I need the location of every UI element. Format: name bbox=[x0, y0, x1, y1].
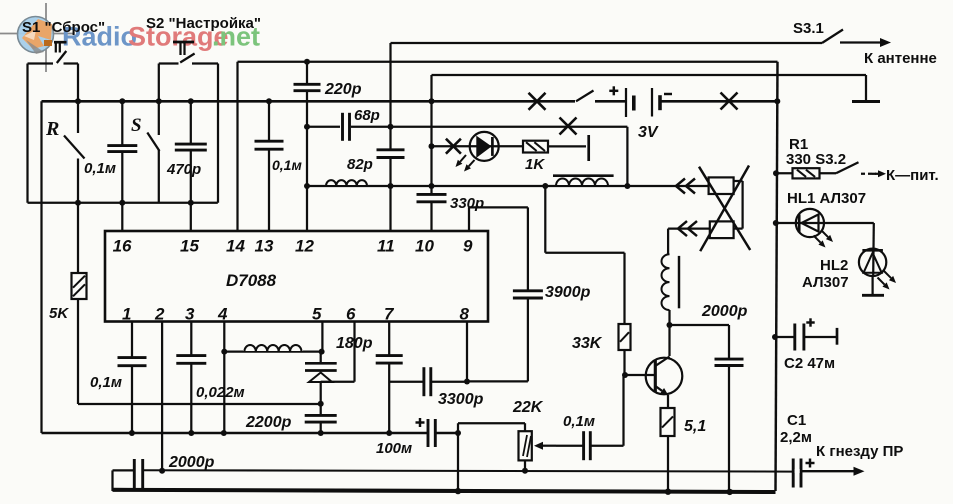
svg-text:C2 47м: C2 47м bbox=[784, 355, 835, 372]
svg-text:33K: 33K bbox=[572, 335, 603, 352]
svg-text:10: 10 bbox=[415, 237, 434, 256]
svg-text:К гнезду ПР: К гнезду ПР bbox=[816, 443, 903, 460]
svg-text:11: 11 bbox=[377, 237, 395, 256]
svg-text:5K: 5K bbox=[49, 305, 69, 322]
svg-text:2,2м: 2,2м bbox=[780, 429, 812, 446]
svg-text:6: 6 bbox=[346, 305, 356, 324]
svg-text:2000p: 2000p bbox=[701, 303, 748, 320]
svg-text:D7088: D7088 bbox=[226, 271, 277, 290]
svg-text:1: 1 bbox=[122, 305, 131, 324]
svg-text:14: 14 bbox=[226, 237, 245, 256]
svg-text:К—пит.: К—пит. bbox=[886, 167, 939, 184]
svg-text:2000p: 2000p bbox=[168, 454, 215, 471]
svg-text:3: 3 bbox=[185, 305, 195, 324]
svg-text:S1 "Сброс": S1 "Сброс" bbox=[22, 19, 105, 36]
svg-text:16: 16 bbox=[113, 237, 132, 256]
svg-text:470p: 470p bbox=[166, 161, 201, 178]
svg-text:82p: 82p bbox=[347, 156, 373, 173]
svg-text:7: 7 bbox=[384, 305, 395, 324]
svg-text:АЛ307: АЛ307 bbox=[802, 274, 849, 291]
svg-text:0,022м: 0,022м bbox=[196, 384, 245, 401]
svg-text:HL1 АЛ307: HL1 АЛ307 bbox=[787, 190, 866, 207]
svg-text:3900p: 3900p bbox=[545, 284, 591, 301]
svg-text:0,1м: 0,1м bbox=[563, 413, 595, 430]
svg-text:3300p: 3300p bbox=[438, 391, 484, 408]
svg-text:0,1м: 0,1м bbox=[272, 157, 302, 173]
svg-text:0,1м: 0,1м bbox=[90, 374, 122, 391]
svg-text:2200p: 2200p bbox=[245, 414, 292, 431]
svg-text:180p: 180p bbox=[336, 335, 373, 352]
svg-text:13: 13 bbox=[255, 237, 274, 256]
svg-text:1K: 1K bbox=[525, 156, 545, 173]
svg-text:68p: 68p bbox=[354, 107, 380, 124]
svg-text:C1: C1 bbox=[787, 412, 806, 429]
svg-text:5,1: 5,1 bbox=[684, 418, 706, 435]
svg-text:15: 15 bbox=[180, 237, 199, 256]
svg-text:8: 8 bbox=[460, 305, 470, 324]
svg-text:5: 5 bbox=[312, 305, 322, 324]
svg-text:330 S3.2: 330 S3.2 bbox=[786, 151, 846, 168]
svg-text:0,1м: 0,1м bbox=[84, 160, 116, 177]
svg-text:2: 2 bbox=[154, 305, 165, 324]
svg-text:HL2: HL2 bbox=[820, 257, 848, 274]
svg-text:4: 4 bbox=[217, 305, 228, 324]
svg-text:S2 "Настройка": S2 "Настройка" bbox=[146, 15, 261, 32]
svg-text:S: S bbox=[131, 115, 142, 136]
svg-text:3V: 3V bbox=[638, 124, 659, 141]
svg-text:100м: 100м bbox=[376, 440, 412, 457]
svg-text:К антенне: К антенне bbox=[864, 50, 937, 67]
svg-text:12: 12 bbox=[295, 237, 314, 256]
svg-text:22K: 22K bbox=[512, 399, 544, 416]
svg-text:330p: 330p bbox=[450, 195, 484, 212]
svg-text:S3.1: S3.1 bbox=[793, 20, 824, 37]
svg-text:9: 9 bbox=[463, 237, 473, 256]
svg-text:220p: 220p bbox=[324, 81, 362, 98]
svg-text:R: R bbox=[45, 118, 59, 140]
